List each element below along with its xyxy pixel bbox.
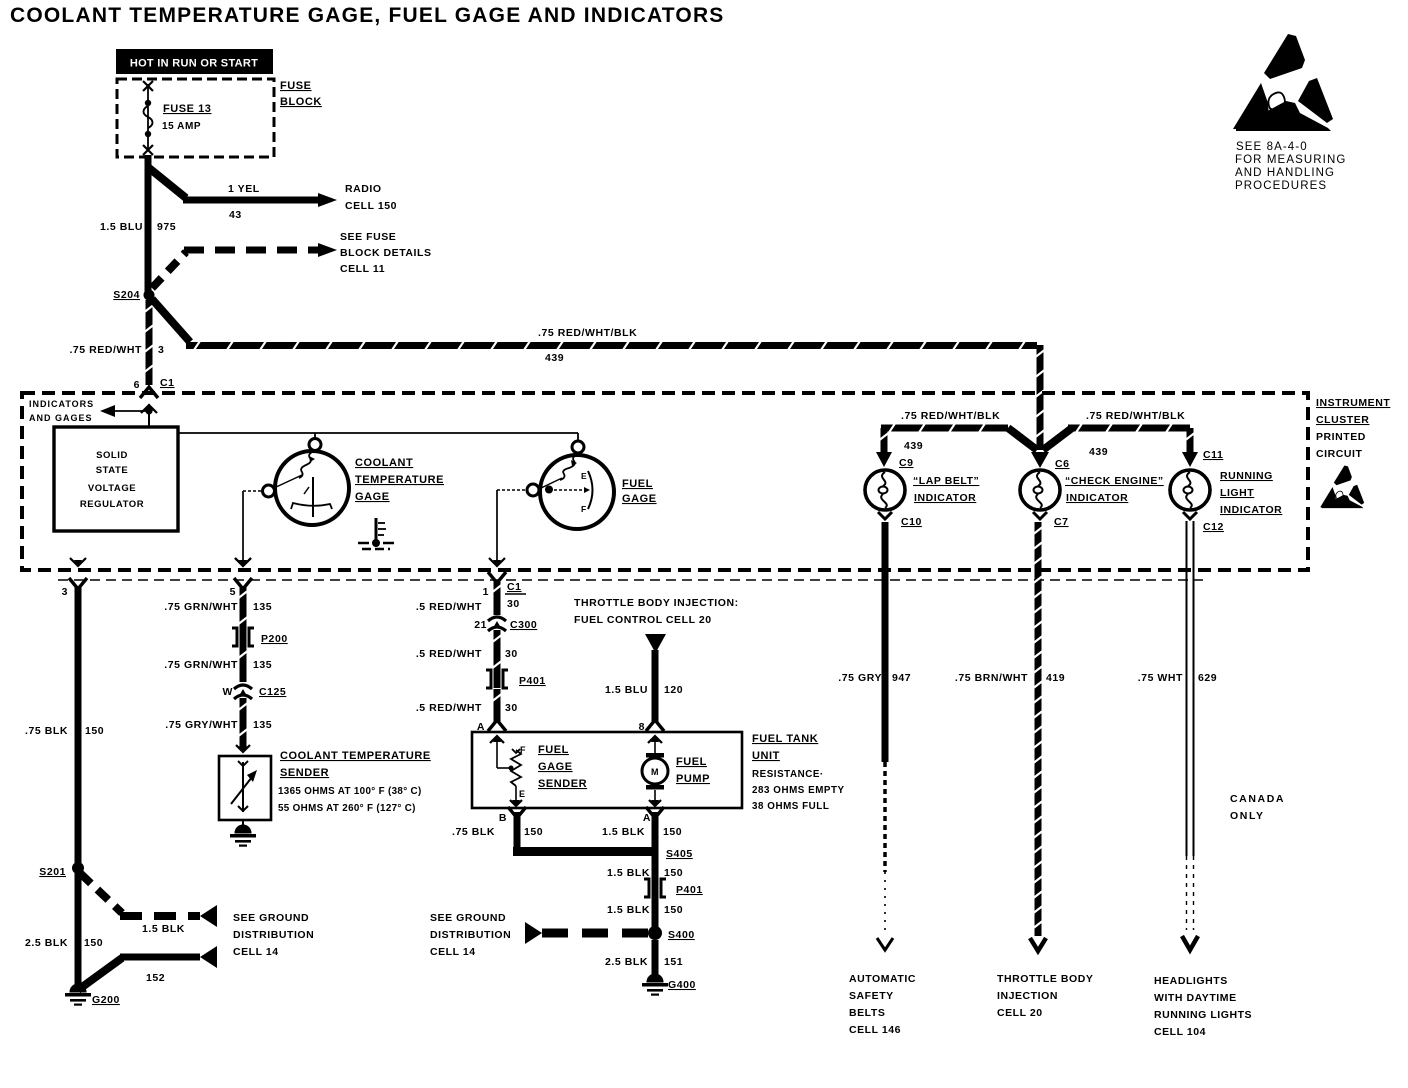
svg-text:120: 120 xyxy=(664,684,683,696)
svg-text:ONLY: ONLY xyxy=(1230,810,1265,822)
svg-text:SENDER: SENDER xyxy=(538,778,587,790)
label .75 GRN/WHT 135 b xyxy=(164,659,272,671)
svg-text:AND HANDLING: AND HANDLING xyxy=(1235,167,1335,179)
label 2.5 BLK 150 xyxy=(25,937,103,949)
arrow to indicators and gages xyxy=(100,404,157,427)
svg-text:M: M xyxy=(651,767,659,777)
svg-text:C12: C12 xyxy=(1203,521,1224,533)
svg-text:.5 RED/WHT: .5 RED/WHT xyxy=(416,648,482,660)
svg-text:INSTRUMENT: INSTRUMENT xyxy=(1316,397,1390,409)
check engine indicator label xyxy=(1065,475,1164,504)
svg-text:CANADA: CANADA xyxy=(1230,793,1285,805)
wire .75 RED/WHT/BLK to running light C11 xyxy=(1043,428,1072,450)
label 1.5 BLK 152 xyxy=(142,923,185,984)
svg-text:BELTS: BELTS xyxy=(849,1007,885,1019)
svg-text:P401: P401 xyxy=(519,675,546,687)
fuel pump label xyxy=(676,756,710,785)
fuel tank unit pin B xyxy=(499,807,526,824)
running light indicator label xyxy=(1220,470,1282,516)
svg-text:F: F xyxy=(520,745,526,755)
svg-text:RUNNING: RUNNING xyxy=(1220,470,1273,482)
wire .5 RED/WHT seg2 xyxy=(494,630,501,688)
arrow into C9 xyxy=(876,452,892,467)
svg-text:VOLTAGE: VOLTAGE xyxy=(88,483,136,494)
dashed wire 2.5 BLK to ground distribution xyxy=(80,873,217,927)
svg-text:.75 GRN/WHT: .75 GRN/WHT xyxy=(164,601,238,613)
automatic safety belts reference xyxy=(849,973,916,1036)
svg-text:C1: C1 xyxy=(160,377,175,389)
svg-text:C1: C1 xyxy=(507,581,522,593)
svg-text:“LAP BELT”: “LAP BELT” xyxy=(913,475,979,487)
svg-text:SAFETY: SAFETY xyxy=(849,990,894,1002)
svg-text:SEE GROUND: SEE GROUND xyxy=(233,912,309,924)
svg-text:SOLID: SOLID xyxy=(96,450,128,461)
svg-text:C9: C9 xyxy=(899,457,914,469)
svg-text:GAGE: GAGE xyxy=(622,493,657,505)
fuse block dashed box xyxy=(117,79,274,157)
wire 1.5 BLK 150 lower xyxy=(652,897,659,930)
svg-text:W: W xyxy=(223,686,233,698)
svg-text:21: 21 xyxy=(474,619,487,631)
running light indicator lamp xyxy=(1170,470,1210,519)
lap belt indicator lamp xyxy=(865,470,905,572)
svg-text:CELL 146: CELL 146 xyxy=(849,1024,901,1036)
svg-text:6: 6 xyxy=(134,379,140,391)
svg-text:FUEL: FUEL xyxy=(676,756,707,768)
svg-text:1.5 BLK: 1.5 BLK xyxy=(607,867,650,879)
svg-text:COOLANT TEMPERATURE GAGE, FUEL: COOLANT TEMPERATURE GAGE, FUEL GAGE AND … xyxy=(10,4,725,27)
svg-text:FUEL TANK: FUEL TANK xyxy=(752,733,818,745)
check engine indicator lamp xyxy=(1020,470,1060,519)
label 1 YEL 43 xyxy=(228,183,260,221)
label .75 RED/WHT 3 xyxy=(69,344,164,356)
bus from regulator to gauges xyxy=(178,433,578,441)
svg-text:135: 135 xyxy=(253,659,272,671)
svg-text:DISTRIBUTION: DISTRIBUTION xyxy=(430,929,511,941)
svg-text:RESISTANCE·: RESISTANCE· xyxy=(752,769,824,780)
svg-text:RADIO: RADIO xyxy=(345,183,382,195)
svg-text:GAGE: GAGE xyxy=(355,491,390,503)
wire .75 WHT 629 running light xyxy=(1182,521,1198,950)
canada only note xyxy=(1230,793,1285,822)
svg-text:1.5 BLU: 1.5 BLU xyxy=(605,684,648,696)
connector C125 xyxy=(223,685,287,699)
wire 1.5 BLU 975 fuse to S204 xyxy=(145,155,152,292)
see ground distribution cell 14 left reference xyxy=(233,912,314,958)
fuel gauge xyxy=(527,441,614,529)
wire .75 BRN/WHT 419 check engine xyxy=(1035,571,1042,936)
svg-text:152: 152 xyxy=(146,972,165,984)
svg-text:PRINTED: PRINTED xyxy=(1316,431,1366,443)
svg-text:.75 GRY/WHT: .75 GRY/WHT xyxy=(165,719,238,731)
label 2.5 BLK 151 xyxy=(605,956,683,968)
svg-text:3: 3 xyxy=(158,344,164,356)
svg-text:G400: G400 xyxy=(668,979,696,991)
svg-text:FOR MEASURING: FOR MEASURING xyxy=(1235,154,1346,166)
svg-text:15 AMP: 15 AMP xyxy=(162,121,201,132)
wire .5 RED/WHT seg1 xyxy=(494,580,501,615)
svg-text:S400: S400 xyxy=(668,929,695,941)
wire 1.5 BLK 152 to ground reference xyxy=(78,946,217,990)
svg-text:COOLANT TEMPERATURE: COOLANT TEMPERATURE xyxy=(280,750,431,762)
label .75 GRY/WHT 135 xyxy=(165,719,272,731)
svg-text:150: 150 xyxy=(663,826,682,838)
svg-text:AND GAGES: AND GAGES xyxy=(29,413,93,423)
svg-text:1: 1 xyxy=(483,586,489,598)
connector P200 xyxy=(232,628,288,646)
fuel tank unit pin A xyxy=(477,720,506,733)
svg-text:INDICATOR: INDICATOR xyxy=(914,492,976,504)
svg-text:947: 947 xyxy=(892,672,911,684)
ground G200 xyxy=(65,864,120,1006)
lap belt indicator label xyxy=(913,475,979,504)
arrow into C6 xyxy=(1031,452,1049,468)
label .5 RED/WHT 30 c xyxy=(416,702,518,714)
svg-text:HEADLIGHTS: HEADLIGHTS xyxy=(1154,975,1228,987)
svg-text:CELL 11: CELL 11 xyxy=(340,263,385,275)
svg-text:1365 OHMS AT 100° F (38° C): 1365 OHMS AT 100° F (38° C) xyxy=(278,786,422,797)
svg-text:2.5 BLK: 2.5 BLK xyxy=(605,956,648,968)
fuel tank unit pin A bottom xyxy=(643,807,664,824)
svg-text:5: 5 xyxy=(230,586,236,598)
svg-text:150: 150 xyxy=(524,826,543,838)
svg-text:1.5 BLK: 1.5 BLK xyxy=(607,904,650,916)
throttle body injection cell 20 reference xyxy=(997,973,1093,1019)
svg-text:FUSE: FUSE xyxy=(280,80,312,92)
svg-text:INDICATOR: INDICATOR xyxy=(1220,504,1282,516)
esd warning symbol top right xyxy=(1233,34,1333,131)
svg-text:HOT IN RUN OR START: HOT IN RUN OR START xyxy=(130,58,258,70)
svg-text:SEE GROUND: SEE GROUND xyxy=(430,912,506,924)
svg-text:1.5 BLK: 1.5 BLK xyxy=(602,826,645,838)
label 1.5 BLK 150 pump xyxy=(602,826,682,838)
svg-text:.75 RED/WHT: .75 RED/WHT xyxy=(69,344,142,356)
svg-text:C300: C300 xyxy=(510,619,537,631)
svg-text:CELL 104: CELL 104 xyxy=(1154,1026,1206,1038)
svg-text:30: 30 xyxy=(505,702,518,714)
label .75 GRN/WHT 135 a xyxy=(164,601,272,613)
wire .75 RED/WHT/BLK 439 long run xyxy=(152,299,190,342)
voltage regulator U1 xyxy=(54,427,178,531)
svg-text:CELL 14: CELL 14 xyxy=(430,946,476,958)
svg-text:SEE 8A-4-0: SEE 8A-4-0 xyxy=(1236,141,1308,153)
svg-text:RUNNING LIGHTS: RUNNING LIGHTS xyxy=(1154,1009,1252,1021)
fuse block label xyxy=(280,80,322,108)
svg-text:1 YEL: 1 YEL xyxy=(228,183,260,195)
svg-text:.75 BLK: .75 BLK xyxy=(452,826,495,838)
label 1.5 BLU 120 xyxy=(605,684,683,696)
svg-text:INDICATORS: INDICATORS xyxy=(29,399,94,409)
svg-text:FUEL: FUEL xyxy=(538,744,569,756)
svg-text:C11: C11 xyxy=(1203,449,1223,461)
wire .5 RED/WHT seg3 xyxy=(494,689,501,722)
coolant sender ground xyxy=(230,820,256,847)
splice S204 xyxy=(113,289,154,301)
label indicators and gages top xyxy=(29,399,94,423)
svg-text:INDICATOR: INDICATOR xyxy=(1066,492,1128,504)
svg-text:SENDER: SENDER xyxy=(280,767,329,779)
label 1.5 BLK 150 low xyxy=(607,904,683,916)
svg-text:150: 150 xyxy=(664,904,683,916)
svg-text:150: 150 xyxy=(664,867,683,879)
svg-text:P401: P401 xyxy=(676,884,703,896)
fuel gage sender resistor xyxy=(490,735,526,807)
fuel pump motor xyxy=(642,735,668,807)
svg-text:S201: S201 xyxy=(39,866,66,878)
svg-text:C7: C7 xyxy=(1054,516,1069,528)
svg-text:150: 150 xyxy=(84,937,103,949)
svg-text:.5 RED/WHT: .5 RED/WHT xyxy=(416,601,482,613)
svg-text:C6: C6 xyxy=(1055,458,1070,470)
svg-text:1.5 BLK: 1.5 BLK xyxy=(142,923,185,935)
coolant temperature sender xyxy=(219,745,271,820)
svg-text:F: F xyxy=(581,504,587,514)
wire .75 RED/WHT 3 S204 to C1 xyxy=(146,300,153,385)
svg-text:AUTOMATIC: AUTOMATIC xyxy=(849,973,916,985)
svg-text:.75 BLK: .75 BLK xyxy=(25,725,68,737)
dashed wire to fuse block details xyxy=(152,243,337,288)
svg-text:.75 RED/WHT/BLK: .75 RED/WHT/BLK xyxy=(901,410,1000,422)
svg-text:C10: C10 xyxy=(901,516,922,528)
arrow into C11 xyxy=(1182,452,1198,467)
fuel tank unit pin 8 xyxy=(639,720,664,733)
svg-text:150: 150 xyxy=(85,725,104,737)
label .75 RED/WHT/BLK 439 lap belt xyxy=(901,410,1000,452)
see ground distribution cell 14 right reference xyxy=(430,912,511,958)
svg-text:REGULATOR: REGULATOR xyxy=(80,499,144,510)
svg-text:CELL 14: CELL 14 xyxy=(233,946,279,958)
svg-text:283 OHMS EMPTY: 283 OHMS EMPTY xyxy=(752,785,845,796)
wire 1 YEL 43 to radio xyxy=(149,168,337,207)
feed arrow from throttle body xyxy=(645,634,666,653)
throttle body injection reference top xyxy=(574,597,739,626)
label 1.5 BLK 150 mid xyxy=(607,867,683,879)
svg-text:.75 GRN/WHT: .75 GRN/WHT xyxy=(164,659,238,671)
svg-text:TEMPERATURE: TEMPERATURE xyxy=(355,474,444,486)
svg-text:439: 439 xyxy=(904,440,923,452)
svg-text:PUMP: PUMP xyxy=(676,773,710,785)
svg-text:439: 439 xyxy=(545,352,564,364)
svg-text:2.5 BLK: 2.5 BLK xyxy=(25,937,68,949)
svg-text:.75 RED/WHT/BLK: .75 RED/WHT/BLK xyxy=(538,327,637,339)
svg-text:439: 439 xyxy=(1089,446,1108,458)
connector C1 pin 6 xyxy=(134,377,175,398)
svg-text:“CHECK ENGINE”: “CHECK ENGINE” xyxy=(1065,475,1164,487)
ground G400 xyxy=(642,974,696,996)
wire coolant gauge to pin 5 xyxy=(235,491,263,567)
fuel tank unit label xyxy=(752,733,845,812)
coolant temperature sender label xyxy=(278,750,431,814)
wire .75 GRY/WHT 135 xyxy=(240,698,247,748)
wire .75 RED/WHT/BLK to lap belt C9 xyxy=(881,424,1037,451)
arrow end check engine xyxy=(1030,938,1046,951)
svg-text:30: 30 xyxy=(505,648,518,660)
label .75 BLK 150 sender xyxy=(452,826,543,838)
label .75 GRY 947 xyxy=(838,672,911,684)
svg-text:CLUSTER: CLUSTER xyxy=(1316,414,1369,426)
label .5 RED/WHT 30 b xyxy=(416,648,518,660)
svg-text:INJECTION: INJECTION xyxy=(997,990,1058,1002)
wire .75 GRY 947 lap belt xyxy=(877,571,893,950)
svg-text:43: 43 xyxy=(229,209,242,221)
wire fuel gauge to pin 1 xyxy=(489,490,527,567)
svg-text:SEE FUSE: SEE FUSE xyxy=(340,231,396,243)
fuel gage label xyxy=(622,478,657,505)
svg-text:E: E xyxy=(519,789,526,799)
svg-text:THROTTLE BODY: THROTTLE BODY xyxy=(997,973,1093,985)
wire .75 BLK 150 xyxy=(75,586,82,864)
svg-text:G200: G200 xyxy=(92,994,120,1006)
headlights reference xyxy=(1154,975,1252,1038)
svg-text:STATE: STATE xyxy=(96,465,128,476)
svg-text:THROTTLE BODY INJECTION:: THROTTLE BODY INJECTION: xyxy=(574,597,739,609)
instrument cluster label xyxy=(1316,397,1390,460)
fuse F13 15A xyxy=(143,81,153,155)
svg-text:30: 30 xyxy=(507,598,520,610)
connector P401 lower xyxy=(644,879,703,897)
label .75 BLK 150 xyxy=(25,725,104,737)
svg-text:1.5 BLU: 1.5 BLU xyxy=(100,221,143,233)
fuse block details reference xyxy=(340,231,432,275)
svg-text:PROCEDURES: PROCEDURES xyxy=(1235,180,1327,192)
svg-text:.75 BRN/WHT: .75 BRN/WHT xyxy=(955,672,1028,684)
wire .75 BLK 150 from sender xyxy=(513,812,655,856)
svg-text:COOLANT: COOLANT xyxy=(355,457,413,469)
svg-text:FUEL: FUEL xyxy=(622,478,653,490)
dashed ground wire into S400 xyxy=(525,922,648,944)
svg-text:FUSE 13: FUSE 13 xyxy=(163,103,211,115)
connector face dashed line xyxy=(58,579,1203,581)
wire 1.5 BLU 120 xyxy=(652,650,659,722)
connector C1 pin 1 xyxy=(483,572,526,610)
splice S201 xyxy=(39,862,84,878)
instrument cluster boundary xyxy=(22,393,1308,570)
radio cell 150 reference xyxy=(345,183,397,212)
svg-text:151: 151 xyxy=(664,956,683,968)
svg-text:38 OHMS FULL: 38 OHMS FULL xyxy=(752,801,829,812)
connector pin 3 xyxy=(62,558,87,598)
label .75 BRN/WHT 419 xyxy=(955,672,1065,684)
coolant temperature gage label xyxy=(355,457,444,503)
svg-text:.75 GRY: .75 GRY xyxy=(838,672,882,684)
svg-text:WITH DAYTIME: WITH DAYTIME xyxy=(1154,992,1237,1004)
svg-text:B: B xyxy=(499,812,507,824)
thermometer icon xyxy=(358,518,394,549)
svg-text:S405: S405 xyxy=(666,848,693,860)
wire below C7 xyxy=(1035,522,1042,572)
wire .75 GRN/WHT 135 seg1 xyxy=(240,586,247,646)
fuse F13 label xyxy=(162,103,211,132)
svg-text:C125: C125 xyxy=(259,686,286,698)
splice S400 xyxy=(648,926,695,941)
svg-text:CELL 20: CELL 20 xyxy=(997,1007,1043,1019)
svg-text:E: E xyxy=(581,471,587,481)
svg-text:S204: S204 xyxy=(113,289,140,301)
connector C300 xyxy=(474,617,537,631)
svg-text:LIGHT: LIGHT xyxy=(1220,487,1254,499)
svg-text:.5 RED/WHT: .5 RED/WHT xyxy=(416,702,482,714)
wire 1.5 BLK 150 from pump xyxy=(652,812,659,897)
svg-text:FUEL CONTROL CELL 20: FUEL CONTROL CELL 20 xyxy=(574,614,712,626)
svg-text:419: 419 xyxy=(1046,672,1065,684)
svg-text:.75 WHT: .75 WHT xyxy=(1138,672,1183,684)
svg-text:975: 975 xyxy=(157,221,176,233)
svg-text:UNIT: UNIT xyxy=(752,750,780,762)
svg-text:P200: P200 xyxy=(261,633,288,645)
svg-text:.75 RED/WHT/BLK: .75 RED/WHT/BLK xyxy=(1086,410,1185,422)
svg-text:629: 629 xyxy=(1198,672,1217,684)
label .75 RED/WHT/BLK 439 top xyxy=(538,327,637,364)
connector pin 5 xyxy=(230,558,252,598)
label .75 WHT 629 xyxy=(1138,672,1217,684)
svg-text:135: 135 xyxy=(253,601,272,613)
wire .75 GRN/WHT 135 seg2 xyxy=(240,646,247,682)
svg-text:CELL 150: CELL 150 xyxy=(345,200,397,212)
svg-text:3: 3 xyxy=(62,586,68,598)
label .75 RED/WHT/BLK 439 running light xyxy=(1086,410,1185,458)
hot in run or start box xyxy=(116,49,273,74)
svg-text:CIRCUIT: CIRCUIT xyxy=(1316,448,1362,460)
wire 2.5 BLK 151 xyxy=(652,940,659,976)
fuel tank unit box xyxy=(472,732,742,808)
svg-text:135: 135 xyxy=(253,719,272,731)
svg-text:BLOCK DETAILS: BLOCK DETAILS xyxy=(340,247,432,259)
fuel gage sender label xyxy=(538,744,587,790)
esd symbol in cluster xyxy=(1320,465,1364,508)
svg-text:DISTRIBUTION: DISTRIBUTION xyxy=(233,929,314,941)
svg-text:GAGE: GAGE xyxy=(538,761,573,773)
svg-text:55 OHMS AT 260° F (127° C): 55 OHMS AT 260° F (127° C) xyxy=(278,803,416,814)
connector P401 xyxy=(486,670,546,688)
esd note xyxy=(1235,141,1346,192)
svg-text:BLOCK: BLOCK xyxy=(280,96,322,108)
coolant temperature gauge xyxy=(263,439,350,526)
label 1.5 BLU 975 xyxy=(100,221,176,233)
